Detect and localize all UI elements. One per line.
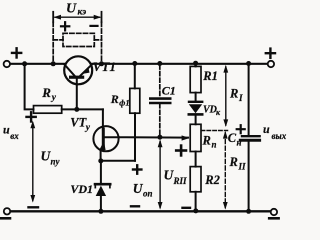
- label Ru: [41, 85, 57, 103]
- label VDk: [203, 105, 221, 118]
- label VTu: [70, 116, 91, 133]
- svg-text:I: I: [238, 93, 243, 103]
- svg-text:ф1: ф1: [119, 98, 129, 108]
- diode VDk: [189, 102, 202, 115]
- dimension arrow R_I: [223, 65, 228, 127]
- label minus (U_ke): [91, 25, 98, 27]
- wire top rail right: [92, 63, 268, 65]
- label plus U_pu: [27, 112, 36, 121]
- svg-text:RII: RII: [173, 176, 188, 186]
- svg-text:R: R: [229, 155, 238, 169]
- node C1 bottom tap: [157, 135, 162, 140]
- resistor Rf1: [130, 88, 140, 113]
- svg-text:вых: вых: [272, 131, 287, 141]
- dimension arrow U_ke: [53, 12, 101, 22]
- svg-text:вх: вх: [10, 131, 19, 141]
- label U_RII: [164, 168, 188, 187]
- transistor VT2: [93, 126, 118, 161]
- svg-text:II: II: [238, 162, 247, 172]
- label plus Cn: [237, 125, 245, 133]
- svg-text:R: R: [41, 85, 51, 100]
- svg-text:C1: C1: [162, 84, 176, 98]
- node Rf1 top: [132, 61, 137, 66]
- svg-text:R: R: [202, 134, 211, 148]
- node C1 top: [157, 61, 162, 66]
- svg-text:C: C: [228, 131, 237, 145]
- terminal bottom right: [271, 209, 277, 215]
- terminal input plus: [4, 61, 10, 67]
- svg-text:R2: R2: [204, 173, 220, 187]
- node Cn top: [246, 61, 251, 66]
- wire Rp to R2: [195, 152, 197, 167]
- node emitter dashed tap: [99, 61, 104, 66]
- node VD1 bottom: [98, 209, 103, 214]
- resistor R2: [190, 167, 201, 192]
- svg-text:у: у: [85, 123, 91, 133]
- svg-text:VD: VD: [203, 105, 217, 116]
- svg-text:пу: пу: [51, 157, 61, 167]
- capacitor Cn: [240, 64, 259, 212]
- dashed box (regulating element): [53, 22, 101, 62]
- dashed divider boundary line: [201, 130, 227, 132]
- label minus U_RII: [183, 207, 191, 209]
- svg-text:u: u: [3, 123, 10, 137]
- node R1 top: [193, 61, 198, 66]
- wire R1 to VDk: [195, 93, 197, 101]
- label R_I: [229, 87, 243, 104]
- label Rp: [202, 134, 217, 150]
- node emitter junction: [98, 158, 103, 163]
- dimension arrow U_RII: [158, 139, 163, 209]
- terminal bottom left: [4, 208, 10, 214]
- capacitor C1 (dashed leads): [150, 65, 170, 136]
- label Cn: [228, 131, 242, 148]
- svg-text:у: у: [51, 93, 57, 103]
- wire R1 top: [195, 63, 197, 66]
- svg-text:VT1: VT1: [93, 59, 116, 74]
- node collector dashed tap: [51, 61, 56, 66]
- dimension arrow U_pu: [30, 121, 35, 203]
- node Cn bottom: [246, 209, 251, 214]
- svg-text:п: п: [212, 140, 217, 150]
- wire Rf1 bottom lead: [134, 113, 136, 161]
- label minus U_op: [131, 205, 139, 207]
- label R_II: [229, 155, 247, 172]
- svg-text:U: U: [66, 1, 77, 16]
- wire bottom rail: [10, 210, 271, 212]
- wire VT2 emitter node horizontal: [101, 160, 135, 162]
- label U_pu: [41, 149, 61, 167]
- node input branch junction: [22, 61, 27, 66]
- svg-text:u: u: [263, 122, 270, 136]
- transistor VT1: [64, 56, 92, 84]
- label plus (U_ke): [61, 22, 69, 30]
- label U_ke: [66, 1, 86, 17]
- wire VT2 base to divider tap: [119, 136, 188, 138]
- wire R2 bottom: [195, 192, 197, 211]
- wire VT1 base down: [76, 85, 78, 110]
- svg-text:R1: R1: [202, 69, 218, 83]
- svg-text:н: н: [237, 138, 242, 148]
- node VT1 base / VT2 collector: [74, 107, 79, 112]
- wire VDk to Rp: [195, 114, 197, 124]
- label plus input: [12, 48, 21, 57]
- label plus U_op: [133, 165, 141, 173]
- potentiometer Rp: [190, 124, 201, 151]
- resistor Ru: [34, 106, 62, 114]
- svg-text:VD1: VD1: [70, 182, 93, 196]
- label minus bottom left: [1, 217, 10, 220]
- wire Ru to VT1 base node: [62, 108, 103, 110]
- label minus bottom right: [269, 217, 278, 220]
- svg-text:кэ: кэ: [78, 8, 87, 18]
- label u_vyx: [263, 122, 287, 141]
- label u_vx: [3, 123, 19, 141]
- dimension arrow R_II (dashed): [223, 131, 228, 210]
- node R2 bottom: [193, 208, 198, 213]
- svg-text:оп: оп: [143, 189, 153, 199]
- label plus output: [266, 49, 275, 58]
- resistor R1: [190, 66, 201, 92]
- wire Rf1 top lead: [134, 64, 136, 89]
- diode VD1 (zener): [95, 161, 110, 212]
- label minus U_pu: [29, 206, 39, 208]
- wire top rail left: [10, 63, 65, 65]
- label Rf1: [110, 92, 130, 108]
- terminal output plus: [268, 61, 274, 67]
- wire VT2 collector drop: [102, 109, 104, 129]
- wire input branch down to Ru: [25, 64, 34, 110]
- svg-text:R: R: [110, 92, 119, 106]
- svg-text:R: R: [229, 87, 238, 101]
- label U_op: [133, 181, 153, 199]
- label plus U_RII: [176, 146, 186, 156]
- wiper arrow into Rp: [182, 135, 190, 140]
